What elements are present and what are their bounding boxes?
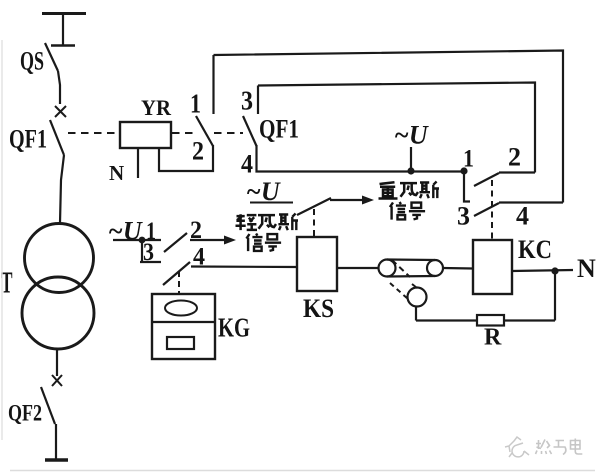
- inner loop wire top: [258, 83, 535, 173]
- wire QF2 to terminal: [55, 424, 57, 460]
- wire KS to capsule: [337, 267, 379, 269]
- text heavy gas signal char si: [419, 182, 439, 199]
- gas relay KG contact 1-2 blade: [164, 233, 187, 252]
- wire outer loop to contact 4: [499, 201, 563, 203]
- text heavy gas signal char hao: [409, 203, 425, 220]
- disconnector QS fixed contact bar: [51, 44, 75, 47]
- capsule bottom line: [387, 275, 435, 278]
- svg-text:QF1: QF1: [259, 115, 299, 144]
- svg-text:2: 2: [192, 137, 204, 166]
- wire YR to N stub: [137, 148, 139, 178]
- mechanical link dashed contact 1-2 to QF1 aux: [214, 132, 243, 134]
- arrow wire to light gas signal: [190, 239, 225, 241]
- svg-text:QF1: QF1: [9, 125, 47, 154]
- arrow head heavy gas: [362, 196, 374, 205]
- node 1 junction: [460, 167, 467, 174]
- svg-text:~U: ~U: [394, 121, 429, 150]
- svg-text:N: N: [109, 161, 124, 185]
- svg-text:QS: QS: [20, 47, 44, 76]
- underline ~U mid: [250, 202, 293, 204]
- aux contact 1-2 blade: [196, 116, 213, 146]
- signal device capsule left circle: [379, 260, 396, 277]
- breaker QF1 blade: [50, 120, 64, 155]
- text light gas signal char qing: [236, 214, 258, 230]
- text light gas signal char si: [278, 214, 298, 231]
- wire inner loop to contact 2: [499, 171, 535, 173]
- breaker QF2 cross mark: [52, 375, 62, 386]
- gas relay KG box: [152, 294, 215, 359]
- wire to resistor: [504, 319, 555, 321]
- wire KC to N: [512, 270, 573, 271]
- wire YR to contact 2: [159, 145, 213, 171]
- svg-text:KC: KC: [518, 235, 552, 264]
- mechanical link dashed QF1 to YR: [68, 132, 119, 134]
- mechanical dashed link KS up: [313, 209, 315, 236]
- wire mirror drop: [415, 306, 417, 321]
- svg-text:R: R: [484, 325, 502, 351]
- svg-text:2: 2: [508, 143, 521, 172]
- QF1 aux contact 3-4 top wire: [257, 86, 259, 115]
- signal device armature circle: [408, 288, 427, 307]
- svg-text:N: N: [577, 254, 596, 283]
- KG float ellipse: [165, 301, 197, 316]
- watermark logo: [505, 437, 529, 457]
- node ~U KG junction: [139, 237, 146, 244]
- text light gas signal char hao2: [265, 234, 281, 251]
- wire N down: [554, 271, 556, 321]
- svg-text:1: 1: [190, 89, 201, 119]
- text light gas signal char xin2: [246, 234, 262, 252]
- mechanical link dashed YR to contact 1-2: [172, 132, 196, 134]
- breaker QF1 cross mark: [55, 106, 66, 117]
- svg-text:2: 2: [190, 217, 202, 244]
- wire QF1 aux contact 4 to node U: [257, 145, 465, 172]
- text heavy gas signal char zhong: [379, 182, 398, 198]
- capsule top line: [387, 258, 435, 261]
- text heavy gas signal char wa: [400, 183, 418, 197]
- svg-text:4: 4: [193, 244, 205, 271]
- node ~U junction: [407, 167, 414, 174]
- wire busbar drop to QS: [62, 13, 64, 45]
- wire drop to 3: [141, 240, 143, 262]
- mechanical dashed link capsule to armature: [390, 283, 408, 299]
- resistor R: [477, 315, 504, 326]
- QF1 aux contact blade: [243, 116, 257, 146]
- svg-text:QF2: QF2: [8, 401, 42, 426]
- busbar: [42, 12, 86, 15]
- KS signal blade: [297, 198, 331, 215]
- arrow head light gas: [224, 236, 236, 245]
- outer loop wire top: [214, 51, 564, 203]
- breaker QF2 blade: [41, 387, 55, 424]
- text heavy gas signal char xin: [390, 202, 406, 220]
- svg-text:4: 4: [516, 202, 529, 231]
- svg-text:1: 1: [463, 146, 474, 173]
- wire KG contact 4 to KS: [191, 265, 297, 268]
- aux contact 1-2 top wire: [212, 55, 214, 114]
- wire transformer to QF2: [56, 349, 58, 376]
- terminal bar (earth): [45, 458, 68, 461]
- svg-text:YR: YR: [141, 95, 172, 120]
- mechanical dashed link KG: [178, 271, 180, 294]
- text light gas signal char wa: [258, 215, 276, 229]
- svg-text:T: T: [1, 265, 13, 300]
- watermark text re: [536, 440, 552, 455]
- wire feed line 3: [140, 261, 161, 263]
- wire capsule to KC: [443, 267, 473, 270]
- KG divider: [152, 321, 215, 323]
- contact KC 3-4 blade: [474, 203, 499, 216]
- signal device capsule right circle: [427, 260, 443, 276]
- gas relay KG contact 3-4 blade: [163, 262, 190, 285]
- border artifacts: [1, 40, 3, 440]
- gas relay output KS box: [297, 237, 337, 291]
- svg-text:3: 3: [457, 202, 470, 231]
- wire resistor to mirror: [416, 319, 477, 321]
- mechanical dashed link inside capsule: [392, 260, 410, 277]
- wire ~U feed line 1: [113, 239, 161, 241]
- svg-text:KG: KG: [218, 313, 250, 343]
- relay coil KC box: [473, 240, 512, 294]
- wire terminal 1 to terminal 3: [464, 171, 470, 202]
- svg-text:~U: ~U: [108, 217, 143, 246]
- svg-text:KS: KS: [303, 294, 334, 323]
- watermark text dian: [571, 439, 583, 455]
- mechanical link dashed contacts to KC: [491, 180, 493, 240]
- trip coil YR box: [120, 122, 171, 148]
- transformer T winding 2: [22, 277, 94, 349]
- transformer T winding 1: [25, 224, 94, 293]
- svg-text:3: 3: [241, 86, 253, 116]
- KG baffle rect: [167, 337, 194, 349]
- wire QS to QF1: [58, 71, 60, 104]
- contact KC 1-2 blade: [474, 173, 499, 186]
- armature tick: [412, 284, 417, 288]
- wire QF1 to transformer: [60, 155, 64, 223]
- wire ~U tick: [410, 147, 412, 171]
- svg-text:3: 3: [143, 239, 154, 266]
- watermark text yu: [554, 441, 566, 455]
- arrow wire to heavy gas signal: [330, 199, 363, 201]
- svg-text:4: 4: [241, 150, 253, 179]
- disconnector QS blade: [45, 43, 58, 71]
- node N junction: [551, 267, 558, 274]
